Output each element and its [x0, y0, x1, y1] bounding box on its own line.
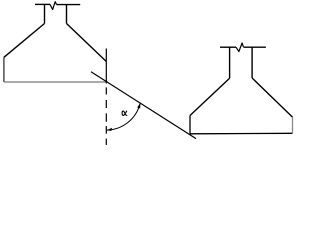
load spread diagonal line [91, 72, 196, 139]
footing A left haunch slope [4, 24, 45, 58]
angle arc lower arrowhead [107, 128, 112, 131]
footing B top-left flange line [220, 46, 236, 48]
footing A left edge [3, 57, 5, 82]
footing A top-right flange line [57, 4, 81, 6]
projection line dashed segment [105, 87, 107, 145]
footing A column right side [66, 5, 68, 24]
footing A top-left flange line [35, 3, 50, 5]
angle dimension arc [107, 104, 140, 131]
footing B left edge [189, 116, 191, 134]
footing B column break symbol [236, 43, 243, 52]
footing B column left side [229, 47, 231, 78]
footing A right haunch slope [67, 24, 107, 62]
footing B left haunch slope [190, 78, 230, 115]
footing B column right side [251, 47, 253, 78]
projection line solid segment (footing A right edge) [105, 49, 107, 84]
footing B right haunch slope [252, 78, 292, 117]
footing B top-right flange line [243, 46, 266, 48]
angle arc upper arrowhead [137, 103, 140, 109]
footing A base bottom line [4, 81, 106, 83]
footing B base bottom line [190, 132, 293, 135]
angle label alpha [122, 111, 127, 115]
footing B right edge [292, 117, 294, 133]
footing A column left side [44, 4, 46, 23]
footing A column break symbol [50, 2, 57, 10]
